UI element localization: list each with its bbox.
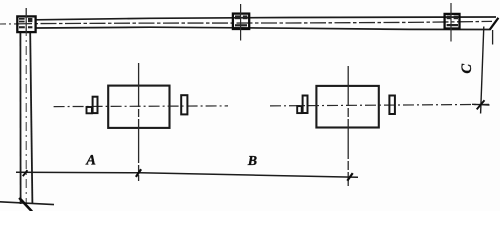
wire: shaft beam bottom line xyxy=(36,27,490,29)
dimension line C (right vertical) xyxy=(481,27,484,114)
tick at column centerline xyxy=(23,170,28,176)
pulley P1a (small, left of M1) xyxy=(87,107,92,113)
break slash at beam right end xyxy=(490,18,499,30)
pulley P1c (right of M1) xyxy=(181,95,187,114)
pulley P2a (small, left of M2) xyxy=(297,106,302,113)
short extension stub right of beam xyxy=(492,30,494,45)
machine M2 horizontal centerline xyxy=(270,104,489,106)
break slash at column bottom xyxy=(19,198,32,212)
column dash-dot centerline xyxy=(25,8,27,204)
column left line xyxy=(19,33,21,204)
pulley P1b (tall, left of M1) xyxy=(93,97,98,113)
dimension line A-B (bottom horizontal) xyxy=(16,172,358,177)
machine M1 body (left rectangle) xyxy=(108,86,169,128)
extension line of M2 centerline at right xyxy=(472,103,490,106)
machine M1 horizontal centerline xyxy=(54,105,228,108)
tick at M1 centerline xyxy=(136,169,141,177)
tick at bottom of dimension C xyxy=(477,100,485,109)
machine M2 body (right rectangle) xyxy=(316,86,378,128)
ground/base line bottom-left xyxy=(0,202,54,205)
wire: left horizontal centerline into left bearing square xyxy=(0,23,16,25)
wire: shaft beam top line xyxy=(36,17,496,20)
node: vertical centerline of square S1 above xyxy=(25,8,27,33)
svg-text:C: C xyxy=(459,64,475,74)
node: vertical centerline of square S3 xyxy=(450,3,452,42)
bearing square S2 (top-middle, hatched) xyxy=(233,14,249,29)
machine M2 vertical centerline xyxy=(347,66,349,186)
svg-text:A: A xyxy=(85,153,96,169)
pulley P2b (tall, left of M2) xyxy=(303,96,308,114)
bearing square S1 (top-left, hatched) xyxy=(17,16,35,32)
column right line xyxy=(30,33,32,204)
node: vertical centerline of square S2 xyxy=(240,4,242,41)
wire: shaft beam dash-dot centerline xyxy=(16,21,492,24)
bearing square S3 (top-right, hatched) xyxy=(445,14,460,29)
pulley P2c (right of M2) xyxy=(389,96,395,115)
tick at M2 centerline xyxy=(347,173,352,181)
machine M1 vertical centerline xyxy=(138,63,140,181)
svg-text:B: B xyxy=(247,154,257,169)
